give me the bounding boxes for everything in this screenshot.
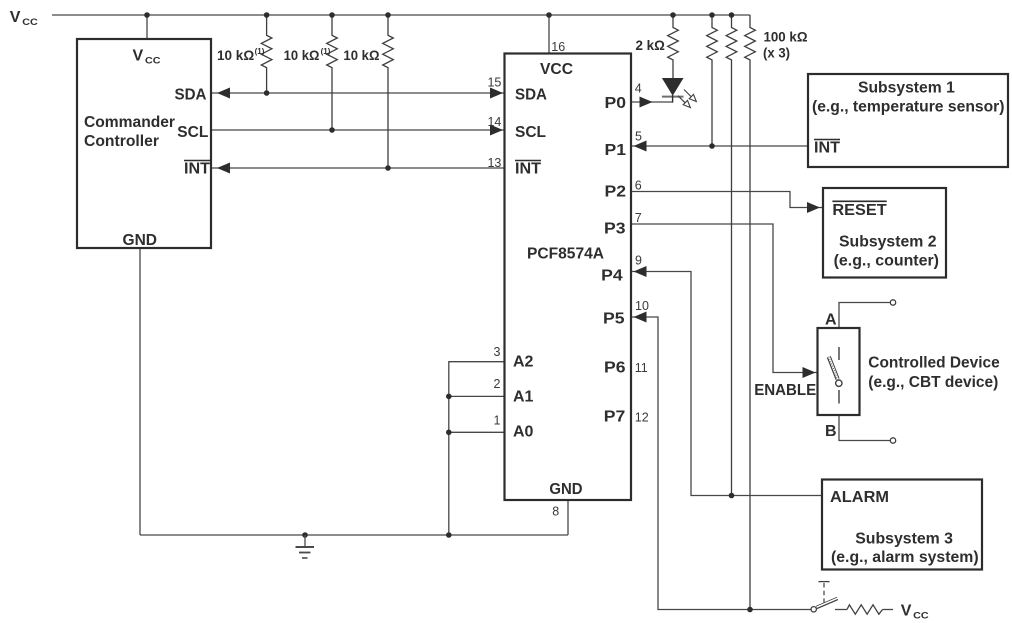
svg-text:12: 12 — [635, 410, 649, 424]
svg-text:11: 11 — [635, 361, 648, 375]
junction: R1 / SDA — [264, 90, 270, 96]
arrowhead P4 in (left) — [634, 266, 647, 277]
wire switch to resistor — [835, 609, 847, 611]
svg-text:P7: P7 — [604, 409, 626, 426]
svg-text:10 kΩ: 10 kΩ — [217, 47, 254, 63]
svg-text:(e.g., alarm system): (e.g., alarm system) — [831, 549, 979, 566]
arrowhead P0 out (right) — [640, 97, 653, 108]
Subsystem 1 INT overline — [814, 139, 840, 141]
commander controller box — [77, 39, 211, 248]
junction: VCC rail / pin16 stem — [546, 12, 552, 18]
svg-text:A0: A0 — [513, 424, 534, 441]
controlled device internal switch — [829, 347, 842, 404]
wire P4 to ALARM — [631, 272, 822, 496]
junction: VCC rail / R6 — [729, 12, 735, 18]
controlled device terminal A circle — [890, 300, 895, 305]
svg-text:SCL: SCL — [177, 124, 208, 141]
svg-text:16: 16 — [551, 40, 565, 54]
IC U1 PCF8574A box — [505, 54, 632, 501]
Subsystem 2 RESET overline — [832, 200, 886, 202]
wire commander GND stem — [139, 248, 141, 535]
wire controlled device terminal A — [839, 303, 890, 329]
svg-text:VCC: VCC — [540, 61, 573, 78]
ground symbol — [296, 535, 315, 558]
junction: VCC rail / R5 — [709, 12, 715, 18]
junction: R2 / SCL — [329, 127, 335, 133]
Subsystem 2 box — [823, 188, 946, 278]
resistor R4 2k (LED) — [668, 15, 679, 78]
junction: VCC rail / R4 — [670, 12, 676, 18]
resistor R2 10k (SCL pull-up) — [327, 15, 338, 130]
arrowhead SCL into PCF (right) — [490, 125, 503, 136]
svg-text:Subsystem 1: Subsystem 1 — [858, 80, 955, 97]
svg-text:V: V — [10, 9, 21, 26]
svg-text:V: V — [133, 48, 144, 65]
svg-text:(e.g., counter): (e.g., counter) — [834, 253, 939, 270]
svg-text:13: 13 — [487, 156, 501, 170]
junction: A-bus / A0 — [446, 430, 452, 436]
svg-text:CC: CC — [913, 610, 929, 621]
svg-text:A2: A2 — [513, 354, 534, 371]
junction: R6 / ALARM wire — [729, 493, 735, 499]
controlled device switch box — [818, 328, 860, 415]
wire pin16 VCC stem — [548, 15, 550, 54]
wire P2 to RESET — [631, 192, 822, 208]
resistor R1 10k (SDA pull-up) — [261, 15, 272, 93]
wire P0 to LED — [631, 101, 673, 103]
resistor R6 100k #2 — [726, 15, 737, 496]
commander INT overline — [184, 160, 210, 162]
svg-text:SCL: SCL — [515, 124, 546, 141]
svg-text:1: 1 — [494, 413, 501, 427]
junction: A-bus / A1 — [446, 394, 452, 400]
wire P5 to bottom switch — [631, 317, 811, 610]
svg-text:100 kΩ: 100 kΩ — [764, 29, 808, 45]
svg-text:Controller: Controller — [84, 133, 159, 150]
svg-text:ALARM: ALARM — [830, 489, 889, 506]
svg-text:P3: P3 — [604, 220, 626, 237]
wire GND rail — [140, 534, 568, 536]
svg-text:Subsystem 3: Subsystem 3 — [855, 530, 953, 547]
resistor R8 (bottom, horizontal, to VCC) — [847, 605, 883, 614]
LED light emission arrows — [678, 90, 696, 108]
controlled device terminal B circle — [890, 438, 895, 443]
svg-text:Controlled Device: Controlled Device — [868, 354, 999, 371]
svg-text:(x 3): (x 3) — [763, 45, 790, 61]
svg-text:SDA: SDA — [515, 87, 547, 104]
svg-text:CC: CC — [22, 17, 38, 28]
svg-text:A: A — [825, 312, 837, 329]
junction: VCC rail / R1 — [264, 12, 270, 18]
svg-text:(e.g., CBT device): (e.g., CBT device) — [868, 374, 998, 391]
svg-text:(e.g., temperature sensor): (e.g., temperature sensor) — [812, 99, 1005, 116]
svg-text:10 kΩ: 10 kΩ — [343, 47, 379, 63]
svg-text:ENABLE: ENABLE — [754, 382, 816, 399]
svg-text:(1): (1) — [321, 47, 331, 56]
arrowhead P2 to RESET (right) — [807, 202, 820, 213]
svg-text:RESET: RESET — [832, 202, 887, 219]
svg-text:5: 5 — [635, 130, 642, 144]
wire commander VCC stem — [146, 15, 148, 39]
svg-text:A1: A1 — [513, 389, 534, 406]
arrowhead SDA into commander (left) — [217, 88, 230, 99]
arrowhead INT into commander (left) — [217, 163, 230, 174]
arrowhead P1 in (left) — [634, 141, 647, 152]
svg-text:P2: P2 — [605, 184, 627, 201]
svg-text:2: 2 — [494, 377, 501, 391]
resistor R7 100k #3 — [745, 15, 756, 610]
svg-text:B: B — [825, 423, 837, 440]
bottom switch SW1 — [811, 582, 838, 612]
wire A2 — [449, 362, 505, 535]
arrowhead P3 to ENABLE (right) — [803, 367, 816, 378]
svg-text:GND: GND — [123, 232, 158, 249]
LED D1 — [662, 78, 684, 103]
svg-text:6: 6 — [635, 179, 642, 193]
junction: VCC rail / R3 — [385, 12, 391, 18]
junction: VCC rail / commander stem — [144, 12, 150, 18]
svg-text:7: 7 — [635, 211, 642, 225]
svg-text:10 kΩ: 10 kΩ — [284, 47, 320, 63]
wire resistor to VCC label — [883, 609, 894, 611]
svg-text:2 kΩ: 2 kΩ — [636, 37, 665, 53]
wire SDA bus — [211, 92, 505, 94]
svg-text:P6: P6 — [604, 360, 626, 377]
junction: R5 / P1 wire — [709, 143, 715, 149]
arrowhead P5 in (left) — [634, 312, 647, 323]
svg-text:P4: P4 — [601, 268, 623, 285]
svg-text:(1): (1) — [255, 47, 265, 56]
svg-text:P0: P0 — [605, 95, 627, 112]
svg-text:15: 15 — [487, 76, 501, 90]
svg-text:PCF8574A: PCF8574A — [527, 246, 604, 263]
wire controlled device terminal B — [839, 415, 890, 441]
svg-text:INT: INT — [184, 161, 210, 178]
junction: VCC rail / R2 — [329, 12, 335, 18]
junction: GND rail / ground symbol — [302, 532, 308, 538]
svg-text:INT: INT — [515, 161, 541, 178]
junction: R3 / INT — [385, 165, 391, 171]
wire INT bus — [211, 167, 505, 169]
svg-text:Commander: Commander — [84, 114, 175, 131]
Subsystem 1 box — [808, 74, 1008, 167]
svg-text:GND: GND — [549, 481, 582, 498]
wire SCL bus — [211, 129, 505, 131]
Subsystem 3 box — [822, 480, 982, 570]
svg-text:3: 3 — [494, 345, 501, 359]
svg-text:V: V — [901, 603, 912, 620]
svg-text:8: 8 — [552, 505, 559, 519]
wire pin8 GND stem — [567, 500, 569, 535]
svg-text:Subsystem 2: Subsystem 2 — [839, 233, 937, 250]
svg-text:P5: P5 — [603, 310, 625, 327]
wire A1 — [449, 395, 505, 397]
svg-text:INT: INT — [814, 140, 840, 157]
arrowhead SDA into PCF (right) — [490, 88, 503, 99]
wire A0 — [449, 431, 505, 433]
svg-text:10: 10 — [635, 299, 649, 313]
svg-text:SDA: SDA — [175, 87, 207, 104]
resistor R5 100k #1 — [707, 15, 718, 146]
junction: GND rail / A-bus — [446, 532, 452, 538]
wire P3 to ENABLE — [631, 224, 817, 373]
PCF INT overline — [515, 160, 541, 162]
svg-text:CC: CC — [145, 55, 161, 66]
wire top VCC rail — [52, 14, 750, 16]
wire P1 from Subsystem 1 — [631, 145, 808, 147]
svg-text:9: 9 — [635, 253, 642, 267]
svg-text:P1: P1 — [605, 142, 627, 159]
svg-text:4: 4 — [635, 81, 642, 95]
resistor R3 10k (INT pull-up) — [383, 15, 394, 168]
svg-text:14: 14 — [487, 115, 501, 129]
junction: R7 / bottom switch wire — [747, 607, 753, 613]
